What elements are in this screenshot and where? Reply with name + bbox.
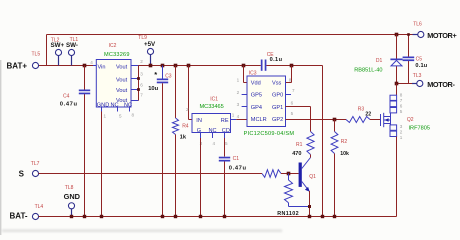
svg-text:D1: D1 — [376, 58, 383, 64]
svg-text:Q1: Q1 — [309, 174, 316, 180]
svg-text:Vin: Vin — [98, 64, 106, 70]
pin G NC CD IC1 bottom pins 3 4 5 — [197, 128, 230, 146]
wire rail end down to ground bus — [322, 66, 324, 217]
svg-text:TL3: TL3 — [413, 73, 422, 79]
wire IC1 GND pin3 to ground bus — [200, 138, 202, 217]
svg-text:GP1: GP1 — [272, 105, 283, 111]
wire rail to IC3 Vss pin8 — [286, 66, 292, 83]
pin Q2 drain pins 8 7 6 5 — [390, 92, 403, 114]
terminal TL2 SW+ — [51, 38, 65, 56]
pin RE IC1 pin1 — [221, 113, 237, 124]
microcontroller IC3 PIC12C509 box — [244, 71, 295, 137]
svg-text:5: 5 — [119, 113, 122, 118]
svg-text:R3: R3 — [358, 106, 365, 112]
wire +5V rail — [139, 65, 323, 67]
svg-text:TL2: TL2 — [51, 38, 60, 44]
svg-text:C1: C1 — [233, 156, 240, 162]
svg-text:R1: R1 — [296, 142, 303, 148]
capacitor C4 0.47u — [60, 90, 90, 108]
svg-text:3: 3 — [140, 71, 143, 76]
node base-emitter resistor tap — [287, 172, 291, 176]
svg-text:TL8: TL8 — [65, 185, 74, 191]
node R4 junction on rail — [174, 64, 178, 68]
wire ground bus — [39, 137, 397, 217]
terminal TL4 BAT- — [10, 204, 44, 221]
svg-text:IRF7805: IRF7805 — [409, 125, 430, 131]
svg-text:0.47u: 0.47u — [229, 165, 247, 171]
svg-text:1k: 1k — [180, 135, 187, 141]
wire C4 bottom to ground bus — [84, 94, 86, 217]
svg-text:TL4: TL4 — [35, 204, 44, 210]
svg-text:RN1102: RN1102 — [277, 211, 299, 217]
svg-text:*: * — [154, 70, 157, 79]
svg-text:2: 2 — [237, 90, 240, 95]
wire BAT+ riser to motor rail — [46, 35, 48, 66]
svg-text:8: 8 — [400, 92, 403, 97]
svg-text:TL1: TL1 — [70, 37, 79, 43]
pin Q2 source pins 3 2 1 — [390, 124, 403, 140]
svg-text:Q2: Q2 — [407, 117, 414, 123]
svg-text:Vout: Vout — [116, 88, 128, 94]
svg-text:PIC12C509-04/SM: PIC12C509-04/SM — [244, 131, 295, 137]
svg-text:R2: R2 — [341, 139, 348, 145]
wire RESET line IC1 RE to IC3 MCLR — [236, 119, 247, 121]
resistor R1 470 — [292, 132, 314, 158]
svg-text:10k: 10k — [340, 151, 349, 157]
svg-text:MCLR: MCLR — [251, 117, 267, 123]
wire rail to IC3 Vdd pin1 — [244, 66, 248, 83]
svg-text:10u: 10u — [148, 86, 158, 92]
svg-text:1: 1 — [237, 78, 240, 83]
svg-text:2: 2 — [140, 59, 143, 64]
svg-text:0.1u: 0.1u — [415, 63, 427, 69]
wire IC1 CD pin5 to C1 — [224, 138, 226, 157]
svg-text:0.47u: 0.47u — [60, 102, 78, 108]
svg-text:IC2: IC2 — [109, 43, 117, 49]
node +5V terminal junction — [149, 64, 153, 68]
svg-text:S: S — [19, 170, 25, 179]
pin GND NC NC IC2 bottom pins 1 5 8 — [97, 103, 135, 119]
regulator IC2 MC33269 box — [96, 43, 131, 107]
svg-text:8: 8 — [289, 78, 292, 83]
svg-text:IN: IN — [196, 118, 202, 124]
resistor Q1 base-emitter — [285, 174, 310, 207]
svg-text:4: 4 — [237, 114, 240, 119]
svg-text:Vout: Vout — [116, 64, 128, 70]
svg-text:1: 1 — [400, 135, 403, 140]
pin IN IC1 pin2 — [186, 107, 202, 124]
svg-text:4: 4 — [213, 141, 216, 146]
diode D1 RB851L-40 — [354, 58, 402, 74]
svg-text:IC3: IC3 — [249, 71, 257, 77]
wire S line to Q1 base network — [39, 173, 263, 175]
capacitor C3 10u — [148, 66, 172, 217]
svg-text:GP2: GP2 — [272, 117, 283, 123]
wire GP1 pin6 to R1 — [286, 107, 311, 132]
terminal TL1 SW- — [66, 37, 78, 55]
capacitor C1 0.47u — [219, 156, 247, 217]
svg-text:C3: C3 — [165, 73, 172, 79]
svg-text:MOTOR+: MOTOR+ — [427, 31, 456, 40]
svg-text:7: 7 — [140, 93, 143, 98]
voltage detector IC1 MC33465 box — [192, 97, 231, 133]
node Vdd drop junction — [242, 64, 246, 68]
terminal TL7 S — [19, 161, 40, 179]
svg-text:6: 6 — [400, 103, 403, 108]
svg-text:22: 22 — [365, 112, 371, 118]
wire MOTOR- line down to Q2 drain — [396, 84, 398, 96]
svg-text:NC: NC — [124, 103, 132, 109]
svg-text:5: 5 — [400, 109, 403, 114]
svg-text:TL5: TL5 — [32, 52, 41, 58]
svg-text:C4: C4 — [63, 94, 70, 100]
svg-text:CD: CD — [222, 128, 230, 134]
svg-text:Vdd: Vdd — [251, 80, 261, 86]
wire D1 and C5 bottoms to MOTOR- line — [395, 61, 417, 85]
pin Vss GP0 GP1 GP2 IC3 right pins 8 7 6 5 — [272, 78, 295, 123]
svg-text:GND: GND — [97, 103, 109, 109]
resistor R4 1k — [173, 66, 189, 217]
svg-text:3: 3 — [400, 124, 403, 129]
wire IC2 GND pin to ground bus — [101, 112, 103, 217]
pin Vdd GP5 GP4 MCLR IC3 left pins 1 2 3 4 — [237, 78, 267, 123]
svg-text:7: 7 — [400, 98, 403, 103]
svg-text:MOTOR-: MOTOR- — [427, 80, 455, 89]
terminal TL5 BAT+ — [7, 52, 41, 71]
transistor Q2 IRF7805 mosfet — [381, 113, 430, 132]
node IC1 IN junction on rail — [187, 64, 191, 68]
scan artifact bottom smudge — [0, 60, 282, 235]
svg-text:5: 5 — [225, 141, 228, 146]
svg-text:4: 4 — [90, 60, 93, 65]
wire Vout bus vertical — [137, 66, 140, 101]
svg-text:Vss: Vss — [272, 80, 282, 86]
wire motor top rail — [47, 34, 418, 36]
svg-text:8: 8 — [132, 112, 135, 117]
capacitor C5 0.1u — [403, 57, 428, 70]
wire Q1 emitter to ground bus — [308, 191, 311, 217]
wire SW+ SW- terminal stubs — [59, 56, 72, 66]
terminal TL3 MOTOR- — [412, 73, 455, 89]
node C3 junction — [161, 64, 165, 68]
svg-text:R4: R4 — [182, 123, 189, 129]
svg-text:470: 470 — [292, 151, 301, 157]
svg-text:GND: GND — [64, 192, 81, 201]
pin Vin IC2 pin4 — [90, 60, 105, 70]
wire GP2 gate line — [286, 119, 347, 121]
svg-text:RE: RE — [221, 118, 229, 124]
svg-text:IC1: IC1 — [210, 97, 218, 103]
svg-text:0.1u: 0.1u — [270, 57, 283, 63]
wire C5 drop from motor rail — [407, 33, 410, 56]
wire D1 drop from motor rail — [396, 35, 398, 59]
node Vss drop junction — [290, 64, 294, 68]
svg-text:GP4: GP4 — [251, 105, 262, 111]
svg-text:MC33465: MC33465 — [200, 104, 224, 110]
terminal TL8 GND — [64, 185, 81, 216]
svg-text:5: 5 — [291, 111, 294, 116]
node C4 tap junction — [83, 64, 87, 90]
wire Q2 source to ground bus — [396, 137, 398, 217]
svg-text:MC33269: MC33269 — [104, 52, 130, 58]
svg-text:Vout: Vout — [116, 77, 128, 83]
wire BAT+ horizontal to IC2 Vin — [39, 65, 94, 67]
node motor+ junction — [395, 33, 399, 37]
capacitor CE 0.1u decoupling — [261, 52, 283, 71]
terminal TL9 +5V — [138, 35, 156, 65]
wire rail to IC1 IN pin — [189, 66, 193, 120]
pin Vout IC2 pins 2 3 6 7 — [116, 59, 143, 104]
svg-text:C5: C5 — [416, 57, 423, 63]
svg-text:GP0: GP0 — [272, 93, 283, 99]
node R2 junction on gate line — [333, 118, 337, 122]
resistor R2 10k — [331, 120, 349, 217]
svg-text:TL6: TL6 — [413, 21, 422, 27]
svg-text:7: 7 — [292, 88, 295, 93]
svg-text:1: 1 — [104, 113, 107, 118]
terminal TL6 MOTOR+ — [413, 21, 457, 39]
svg-text:6: 6 — [291, 101, 294, 106]
svg-text:RB851L-40: RB851L-40 — [354, 68, 382, 74]
resistor R3 22 gate resistor — [346, 106, 380, 122]
transistor Q1 RN1102 — [277, 155, 316, 217]
resistor Q1 base series — [262, 170, 299, 178]
svg-text:3: 3 — [237, 102, 240, 107]
svg-text:TL7: TL7 — [31, 161, 40, 167]
svg-text:2: 2 — [400, 129, 403, 134]
node ground bus junctions — [70, 215, 336, 218]
svg-text:+5V: +5V — [144, 41, 156, 48]
svg-text:2: 2 — [186, 107, 189, 112]
svg-text:GP5: GP5 — [251, 93, 262, 99]
svg-text:6: 6 — [140, 82, 143, 87]
svg-text:BAT-: BAT- — [10, 212, 28, 221]
svg-text:BAT+: BAT+ — [7, 61, 28, 70]
svg-text:1: 1 — [232, 113, 235, 118]
